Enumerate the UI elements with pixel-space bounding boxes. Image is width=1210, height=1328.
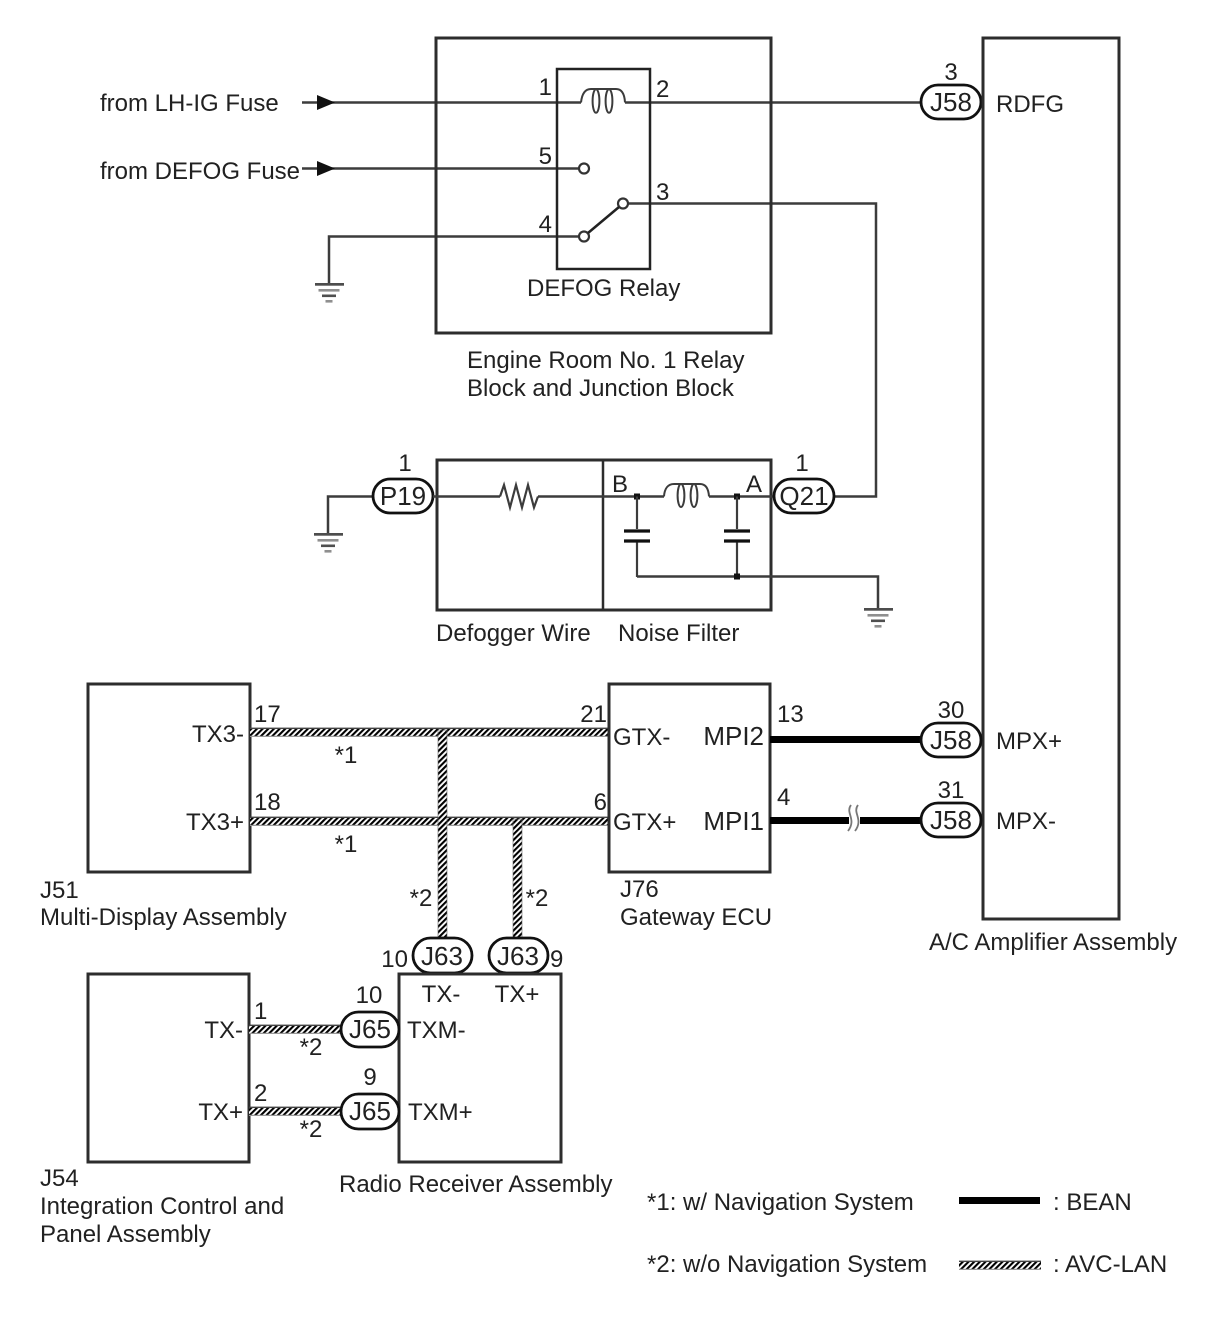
AVC-LAN wire TX+ to J65 pin 9 — [249, 1107, 341, 1116]
J54 Integration Control box — [88, 974, 249, 1162]
ground G1 — [315, 283, 344, 303]
Radio Receiver Assembly box — [399, 974, 561, 1162]
connector J63 pin 10 — [381, 938, 472, 973]
connector Q21 — [774, 450, 834, 513]
legend BEAN sample — [959, 1197, 1040, 1204]
svg-text:9: 9 — [363, 1064, 376, 1091]
svg-text:J58: J58 — [930, 725, 972, 755]
legend AVC-LAN sample — [959, 1261, 1041, 1270]
svg-text:2: 2 — [254, 1080, 267, 1107]
svg-text:Engine Room No. 1 Relay: Engine Room No. 1 Relay — [467, 347, 744, 374]
capacitor C-A plates — [724, 529, 750, 532]
svg-text:30: 30 — [938, 697, 965, 724]
svg-text:1: 1 — [539, 74, 552, 101]
svg-text:TX-: TX- — [422, 981, 461, 1008]
svg-text:MPX+: MPX+ — [996, 728, 1062, 755]
relay coil — [581, 89, 625, 113]
svg-text:RDFG: RDFG — [996, 91, 1064, 118]
svg-text:31: 31 — [938, 777, 965, 804]
svg-text:J76: J76 — [620, 876, 659, 903]
svg-text:*2: *2 — [300, 1116, 323, 1143]
svg-text:TX3-: TX3- — [192, 721, 244, 748]
svg-text:3: 3 — [944, 59, 957, 86]
svg-text:*1: *1 — [335, 742, 358, 769]
svg-text:MPX-: MPX- — [996, 808, 1056, 835]
svg-text:from DEFOG Fuse: from DEFOG Fuse — [100, 158, 300, 185]
connector J58 pin 31 — [921, 777, 981, 837]
svg-text:1: 1 — [254, 998, 267, 1025]
svg-text:J54: J54 — [40, 1165, 79, 1192]
divider between defogger wire and noise filter — [602, 460, 605, 610]
svg-text:TXM-: TXM- — [407, 1017, 466, 1044]
svg-text:1: 1 — [398, 450, 411, 477]
capacitor C-B lead — [636, 497, 638, 530]
svg-text:GTX+: GTX+ — [613, 809, 676, 836]
AVC-LAN wire TX3- to GTX- — [250, 728, 608, 737]
svg-text:*2: *2 — [300, 1034, 323, 1061]
node A — [734, 494, 740, 500]
svg-text:Integration Control and: Integration Control and — [40, 1193, 284, 1220]
svg-text:TX-: TX- — [204, 1017, 243, 1044]
AVC-LAN wire TX3+ to GTX+ — [250, 817, 608, 826]
svg-text:17: 17 — [254, 701, 281, 728]
svg-text:MPI1: MPI1 — [703, 806, 764, 836]
svg-text:18: 18 — [254, 789, 281, 816]
junction dot on ground bus — [734, 574, 740, 580]
svg-text:DEFOG Relay: DEFOG Relay — [527, 275, 680, 302]
svg-text:Q21: Q21 — [779, 481, 828, 511]
ground G3 — [864, 608, 893, 628]
noise filter inductor — [664, 484, 709, 507]
svg-text:Radio Receiver Assembly: Radio Receiver Assembly — [339, 1171, 612, 1198]
DEFOG relay box — [557, 69, 650, 269]
relay pin 5 contact — [579, 164, 589, 174]
J51 Multi-Display Assembly box — [88, 684, 250, 872]
svg-text:GTX-: GTX- — [613, 724, 670, 751]
svg-text:21: 21 — [580, 701, 607, 728]
svg-text:6: 6 — [594, 789, 607, 816]
svg-text:P19: P19 — [380, 481, 426, 511]
AVC-LAN vertical branch to J63 pin 10 — [438, 730, 447, 938]
svg-text:9: 9 — [550, 946, 563, 973]
wire relay pin 4 to ground — [329, 237, 579, 285]
svg-text:: BEAN: : BEAN — [1053, 1189, 1132, 1216]
svg-text:MPI2: MPI2 — [703, 721, 764, 751]
wire P19 to ground — [328, 497, 373, 535]
AVC-LAN wire TX- to J65 pin 10 — [249, 1025, 341, 1034]
capacitor C-A lead — [736, 497, 738, 530]
wire from DEFOG fuse to relay pin 5 — [302, 167, 579, 170]
svg-text:Multi-Display Assembly: Multi-Display Assembly — [40, 904, 287, 931]
relay switch arm — [588, 207, 619, 233]
wire P19 to resistor — [433, 495, 500, 498]
svg-text:J58: J58 — [930, 87, 972, 117]
svg-text:J63: J63 — [497, 941, 539, 971]
Engine Room No.1 Relay Block box — [436, 38, 771, 333]
ground G2 — [314, 533, 343, 553]
svg-text:3: 3 — [656, 179, 669, 206]
svg-text:Defogger Wire: Defogger Wire — [436, 620, 591, 647]
svg-text:*1: *1 — [335, 831, 358, 858]
connector J63 pin 9 — [489, 938, 563, 973]
connector J65 pin 9 — [341, 1064, 399, 1129]
svg-text:A: A — [746, 471, 762, 498]
svg-text:TX+: TX+ — [495, 981, 540, 1008]
A/C Amplifier Assembly box — [983, 38, 1119, 919]
Defogger Wire / Noise Filter box — [437, 460, 771, 610]
AVC-LAN vertical branch to J63 pin 9 — [513, 819, 522, 938]
svg-text:J65: J65 — [349, 1096, 391, 1126]
relay pin 3 contact — [618, 199, 628, 209]
svg-text:*1: w/ Navigation System: *1: w/ Navigation System — [647, 1189, 914, 1216]
wire from LH-IG fuse to relay coil pin 1 — [302, 101, 581, 104]
svg-text:B: B — [612, 471, 628, 498]
svg-text:TXM+: TXM+ — [408, 1099, 473, 1126]
connector J58 pin 30 — [921, 697, 981, 757]
arrowhead LH-IG feed — [317, 95, 335, 110]
noise filter ground bus wire — [637, 577, 878, 610]
svg-text:*2: *2 — [410, 885, 433, 912]
svg-text:13: 13 — [777, 701, 804, 728]
BEAN wire MPI2 to J58 pin 30 — [770, 736, 921, 743]
svg-text:*2: w/o Navigation System: *2: w/o Navigation System — [647, 1251, 927, 1278]
svg-text:J63: J63 — [421, 941, 463, 971]
wire break squiggle — [848, 805, 851, 831]
relay pin 4 contact — [579, 232, 589, 242]
capacitor C-B bottom lead — [636, 543, 638, 578]
connector P19 — [373, 450, 433, 513]
capacitor C-B plates — [624, 529, 650, 532]
svg-text:Block and Junction Block: Block and Junction Block — [467, 375, 735, 402]
svg-text:Panel Assembly: Panel Assembly — [40, 1221, 211, 1248]
svg-text:: AVC-LAN: : AVC-LAN — [1053, 1251, 1167, 1278]
node B — [634, 494, 640, 500]
J76 Gateway ECU box — [609, 684, 770, 872]
svg-text:Gateway ECU: Gateway ECU — [620, 904, 772, 931]
capacitor C-A bottom lead — [736, 543, 738, 578]
svg-text:TX+: TX+ — [198, 1099, 243, 1126]
svg-text:TX3+: TX3+ — [186, 809, 244, 836]
svg-text:from LH-IG Fuse: from LH-IG Fuse — [100, 90, 279, 117]
defogger resistor element — [500, 485, 538, 508]
arrowhead DEFOG feed — [317, 161, 335, 176]
svg-text:10: 10 — [381, 946, 408, 973]
wire relay pin 2 to connector J58 — [625, 101, 921, 104]
svg-text:4: 4 — [777, 784, 790, 811]
svg-text:4: 4 — [539, 211, 552, 238]
svg-text:J65: J65 — [349, 1014, 391, 1044]
svg-text:A/C Amplifier Assembly: A/C Amplifier Assembly — [929, 929, 1177, 956]
svg-text:Noise Filter: Noise Filter — [618, 620, 739, 647]
connector J65 pin 10 — [341, 982, 399, 1047]
svg-text:J58: J58 — [930, 805, 972, 835]
svg-text:1: 1 — [795, 450, 808, 477]
BEAN wire MPI1 to J58 pin 31 (with break) — [770, 817, 849, 824]
connector J58 pin 3 — [921, 59, 981, 119]
svg-text:10: 10 — [356, 982, 383, 1009]
wire inductor to node A and Q21 — [709, 495, 774, 498]
svg-text:5: 5 — [539, 143, 552, 170]
svg-text:*2: *2 — [526, 885, 549, 912]
svg-text:2: 2 — [656, 76, 669, 103]
wire relay pin 3 down to noise filter Q21 — [628, 204, 876, 497]
svg-text:J51: J51 — [40, 877, 79, 904]
wire resistor to node B — [538, 495, 664, 498]
